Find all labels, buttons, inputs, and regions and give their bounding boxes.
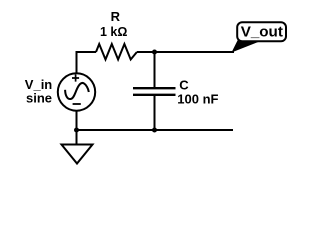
node junction dot top (152, 50, 157, 55)
svg-text:sine: sine (26, 90, 52, 105)
resistor R1 zigzag (96, 44, 137, 60)
voltage source V1 circle (58, 73, 95, 110)
V_out flag pointer (232, 40, 260, 53)
junction dot ground (74, 128, 79, 133)
wire source bottom (76, 111, 78, 130)
source sine waveform (65, 83, 89, 99)
source minus sign (73, 103, 81, 105)
wire top-left from source to resistor (76, 52, 97, 74)
svg-text:100 nF: 100 nF (177, 92, 218, 107)
capacitor C top plate (133, 87, 176, 89)
junction dot bottom capacitor (152, 128, 157, 133)
source plus sign (72, 74, 79, 81)
svg-text:R: R (111, 9, 121, 24)
capacitor C bottom plate (133, 94, 176, 96)
wire capacitor to bottom rail (154, 96, 156, 130)
svg-text:1 kΩ: 1 kΩ (100, 25, 127, 39)
ground symbol triangle (62, 145, 93, 164)
V_out flag bubble (237, 22, 286, 41)
svg-text:V_out: V_out (241, 24, 283, 41)
svg-text:C: C (179, 78, 189, 93)
bottom rail wire (77, 129, 234, 131)
wire node to capacitor (154, 52, 156, 87)
ground stem wire (76, 130, 78, 145)
wire resistor to V_out node (137, 51, 234, 53)
